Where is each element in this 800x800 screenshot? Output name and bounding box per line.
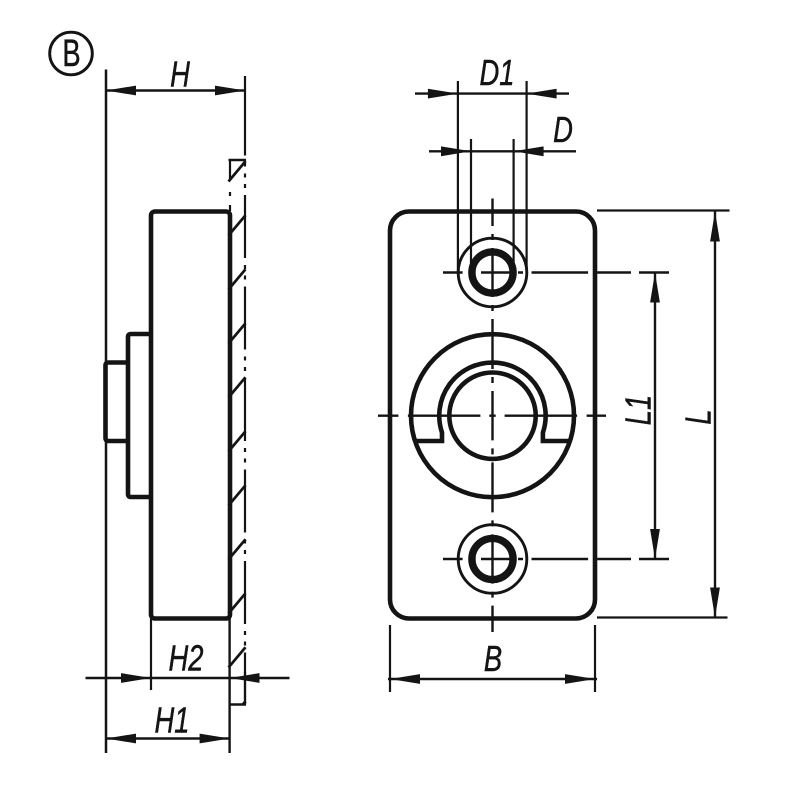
svg-text:D: D <box>553 109 573 150</box>
center bore circle <box>449 373 535 459</box>
dimension H <box>106 54 245 156</box>
svg-text:L1: L1 <box>618 395 659 425</box>
top mounting hole <box>458 238 527 307</box>
dimension L <box>597 211 730 618</box>
dimension D <box>429 109 576 272</box>
flange collar outline <box>128 334 151 497</box>
wall back phantom line <box>244 160 246 705</box>
bottom mounting hole <box>458 525 527 594</box>
svg-text:H: H <box>170 54 191 95</box>
extension line front face <box>105 70 108 754</box>
dimension H1 <box>106 700 230 744</box>
centerline and L1 extension bottom hole <box>443 558 669 560</box>
dimension H2 <box>86 619 290 705</box>
body outline side view <box>151 212 230 619</box>
dimension D1 <box>415 52 569 272</box>
counterbore outer circle <box>411 334 574 497</box>
wall lower front line and H1 right extension <box>228 619 230 754</box>
dimension B <box>388 625 597 692</box>
dimension L1 <box>618 273 660 560</box>
view label circle B <box>50 32 93 75</box>
centerline and L1 extension top hole <box>443 271 669 273</box>
svg-text:B: B <box>484 638 502 679</box>
vertical centerline <box>491 199 493 633</box>
keyed ring with notches <box>415 363 570 441</box>
svg-text:B: B <box>62 33 80 75</box>
horizontal centerline center bore <box>378 415 606 417</box>
svg-text:L: L <box>678 409 719 424</box>
wall bottom edge <box>229 703 247 706</box>
wall top edge <box>229 159 247 162</box>
svg-text:D1: D1 <box>480 52 515 93</box>
svg-text:H1: H1 <box>155 700 190 741</box>
svg-text:H2: H2 <box>169 638 204 679</box>
wall front phantom line <box>229 160 231 211</box>
front boss outline <box>106 363 129 442</box>
plate outline front view <box>390 212 595 619</box>
